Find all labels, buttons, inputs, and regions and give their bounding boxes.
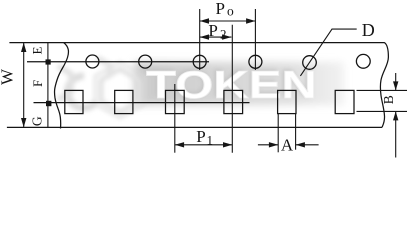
B top line xyxy=(357,89,408,91)
pocket centre line xyxy=(34,102,250,104)
svg-text:G: G xyxy=(30,116,45,126)
svg-text:TOKEN: TOKEN xyxy=(146,64,317,107)
A arrowhead left xyxy=(269,142,278,147)
svg-text:1: 1 xyxy=(207,132,214,147)
sprocket hole 4 xyxy=(249,55,262,68)
A extension line left xyxy=(277,114,279,152)
P1 arrowhead left xyxy=(175,142,184,147)
pocket 4 xyxy=(224,90,243,113)
svg-text:o: o xyxy=(227,3,234,18)
D leader line xyxy=(300,29,356,76)
sprocket hole 3 xyxy=(193,55,206,68)
watermark gradient panel xyxy=(134,62,344,105)
B arrowhead up xyxy=(393,111,398,120)
sprocket hole 2 xyxy=(139,55,152,68)
pocket 3 xyxy=(166,90,185,113)
P1 arrowhead right xyxy=(223,142,232,147)
Po arrowhead left xyxy=(200,18,209,23)
svg-text:P: P xyxy=(216,0,225,18)
sprocket hole centre line xyxy=(27,61,209,63)
svg-text:B: B xyxy=(381,95,396,104)
watermark TOKEN text xyxy=(144,63,317,108)
marker square at E/F junction xyxy=(46,59,51,64)
svg-text:A: A xyxy=(281,136,294,155)
pocket 1 xyxy=(65,90,83,113)
W arrowhead up xyxy=(21,43,26,52)
B arrow shaft top xyxy=(395,73,397,90)
P1 extension line left (through pocket 3) xyxy=(174,84,176,153)
A extension line right xyxy=(295,114,297,150)
svg-text:F: F xyxy=(30,80,45,87)
marker square at F/G junction xyxy=(46,101,51,106)
P2 arrowhead left xyxy=(200,34,209,39)
B arrow shaft bottom xyxy=(395,111,397,157)
pocket 2 xyxy=(115,90,133,113)
E/F/G dimension line xyxy=(47,43,49,128)
W dimension line xyxy=(23,43,25,128)
B arrowhead down xyxy=(393,81,398,90)
svg-text:P: P xyxy=(196,127,205,146)
sprocket hole 6 xyxy=(356,54,370,68)
tape right corner and break curve xyxy=(377,43,388,128)
Po arrowhead right xyxy=(246,18,255,23)
svg-text:P: P xyxy=(208,21,217,40)
sprocket hole 1 xyxy=(86,55,99,68)
A arrowhead right xyxy=(296,142,305,147)
pocket 6 (B reference) xyxy=(335,90,354,113)
svg-text:W: W xyxy=(0,68,17,85)
tape top edge with left extension xyxy=(9,42,377,44)
P2 arrowhead right xyxy=(222,34,231,39)
A arrow shaft left xyxy=(258,144,278,146)
B bottom line xyxy=(357,110,408,112)
W arrowhead down xyxy=(21,118,26,127)
P2 dimension line xyxy=(200,36,232,38)
P1 dimension line xyxy=(175,144,233,146)
tape bottom edge with left extension xyxy=(7,126,382,128)
tape left break curve xyxy=(55,43,69,129)
sprocket hole 5 (D reference) xyxy=(303,56,317,70)
Po dimension line xyxy=(200,20,256,22)
pocket 5 (A reference) xyxy=(278,90,296,113)
Po extension line right (through hole 4) xyxy=(254,9,256,70)
A arrow shaft right xyxy=(296,144,319,146)
Po extension line left (through hole 3) xyxy=(199,9,201,70)
P2/P1 extension line (through pocket 4) xyxy=(231,25,233,153)
svg-text:E: E xyxy=(30,46,45,54)
svg-text:D: D xyxy=(362,20,375,40)
svg-text:2: 2 xyxy=(220,26,227,41)
watermark logo hexagon xyxy=(58,58,145,118)
